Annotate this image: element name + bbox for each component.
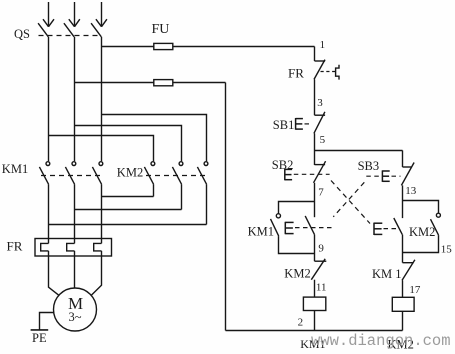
- motor M circle: [54, 288, 97, 331]
- wire phase1 vertical: [48, 37, 50, 161]
- wire 1-3: [314, 79, 316, 115]
- KM1 aux branch bottom wire: [279, 236, 315, 253]
- svg-text:2: 2: [298, 317, 304, 329]
- svg-text:13: 13: [405, 185, 417, 197]
- wire bottom rail: [226, 330, 403, 332]
- wire KM2 pole3 down: [206, 184, 208, 224]
- svg-text:7: 7: [318, 187, 324, 199]
- FR heater element 3: [94, 243, 102, 251]
- svg-text:1: 1: [320, 39, 326, 51]
- svg-text:KM1: KM1: [248, 225, 274, 239]
- wire 13-15 lower: [402, 235, 404, 263]
- SB2 link dash: [294, 173, 330, 175]
- svg-text:3~: 3~: [69, 310, 82, 324]
- wire tap phase1 to KM2 pole1: [49, 136, 154, 162]
- svg-text:www.diangon.com: www.diangon.com: [311, 332, 451, 350]
- coil KM2: [392, 297, 414, 311]
- wire node1 corner down: [314, 47, 316, 62]
- svg-text:3: 3: [317, 97, 323, 109]
- wire to fuse FU2: [75, 82, 226, 84]
- svg-text:SB2: SB2: [272, 158, 294, 172]
- thermal contact FR (NC): [314, 60, 325, 80]
- svg-text:KM2: KM2: [117, 166, 143, 180]
- wire phase2 vertical: [74, 37, 76, 161]
- fuse FU2: [154, 80, 173, 86]
- right E link dashes: [384, 228, 398, 230]
- svg-text:SB3: SB3: [358, 159, 380, 173]
- right E actuator: [374, 223, 382, 235]
- FR heater element 2: [67, 243, 75, 251]
- contact KM1 NC interlock: [402, 260, 415, 281]
- linkage SB2 to right NO contact (dashed diagonal): [331, 181, 370, 224]
- switch QS pole 2 blade: [64, 23, 74, 37]
- KM1 linkage dashed: [41, 175, 102, 177]
- svg-text:KM1: KM1: [2, 162, 28, 176]
- QS linkage dashed: [39, 35, 102, 37]
- wire coil KM2 to rail: [402, 311, 404, 330]
- contactor KM1 main pole2: [65, 162, 75, 185]
- wire node5 corner down (right branch): [402, 150, 404, 167]
- wire FR1 to motor: [49, 251, 59, 295]
- pushbutton SB1 (NC stop): [314, 112, 325, 134]
- svg-text:KM2: KM2: [409, 225, 435, 239]
- wire join out3: [102, 196, 154, 198]
- contactor KM1 aux contact: [271, 214, 281, 236]
- wire FR2 to motor: [74, 251, 76, 288]
- contactor KM1 main pole3: [92, 162, 102, 185]
- wire FR3 to motor: [91, 251, 101, 295]
- wire tap phase3 to KM2 pole3: [102, 115, 207, 162]
- coil KM1: [303, 297, 325, 310]
- supply line L3: [96, 2, 107, 27]
- SB3 actuator E: [382, 170, 389, 182]
- wire control feed left (from FU2): [225, 83, 227, 331]
- wire KM2 pole2 down: [181, 184, 183, 209]
- wire node5 branch right: [315, 150, 403, 152]
- wire phase3 vertical: [101, 37, 103, 161]
- contactor KM1 main pole1: [39, 162, 49, 185]
- svg-text:KM2: KM2: [284, 266, 310, 280]
- contactor KM2 main pole1: [144, 162, 154, 185]
- SB3-NO actuator E: [285, 222, 293, 234]
- KM1 aux branch top wire: [279, 202, 315, 214]
- svg-text:15: 15: [441, 244, 453, 256]
- wire KM1 pole2 down: [74, 184, 76, 243]
- svg-text:9: 9: [318, 243, 324, 255]
- contact KM2 NC interlock: [311, 259, 326, 280]
- svg-text:5: 5: [320, 134, 326, 146]
- wire 7-9 lower: [314, 235, 316, 262]
- pushbutton SB3 (NC shown): [401, 163, 414, 186]
- fuse FU1: [154, 43, 173, 49]
- wire tap phase2 to KM2 pole2: [75, 126, 182, 162]
- supply line L1: [43, 2, 54, 27]
- SB2 actuator E: [285, 169, 292, 181]
- switch QS pole 1 blade: [38, 23, 48, 37]
- thermal relay FR box: [35, 239, 112, 257]
- wire KM2 pole1 down: [153, 184, 155, 196]
- supply line L2: [69, 2, 80, 27]
- KM2 linkage dashed: [146, 175, 207, 177]
- contact SB3-NO between 7 and 9: [305, 216, 314, 235]
- KM2 aux branch top wire: [403, 201, 439, 214]
- wire to fuse FU1: [102, 46, 315, 48]
- wire PE: [40, 313, 54, 330]
- wire 9-11: [314, 280, 316, 297]
- contactor KM2 main pole3: [197, 162, 208, 185]
- wire 13 vertical: [402, 185, 404, 218]
- wire 5-7: [314, 183, 316, 217]
- left E link dashes: [295, 227, 333, 229]
- wire join out1: [49, 224, 207, 226]
- ground bar: [31, 329, 49, 331]
- linkage SB3 to left NO contact (dashed diagonal): [333, 182, 364, 217]
- svg-text:KM 1: KM 1: [372, 267, 402, 281]
- switch QS pole 3 blade: [91, 23, 101, 37]
- KM2 aux branch bottom wire: [403, 235, 439, 252]
- svg-text:17: 17: [409, 284, 421, 296]
- wire KM1 pole1 down: [48, 184, 50, 243]
- svg-text:QS: QS: [14, 27, 30, 41]
- svg-text:FR: FR: [7, 238, 23, 253]
- wire coil KM1 to rail: [314, 311, 316, 331]
- FR heater element 1: [41, 243, 49, 251]
- svg-text:11: 11: [316, 281, 327, 293]
- SB1 link dash: [305, 123, 312, 125]
- svg-text:FU: FU: [152, 22, 170, 37]
- contactor KM2 main pole2: [172, 162, 183, 185]
- SB3 link dash left: [366, 175, 380, 177]
- wire 15-17: [402, 280, 404, 297]
- SB1 actuator E: [296, 118, 303, 130]
- contactor KM2 aux contact: [431, 213, 441, 235]
- svg-text:FR: FR: [288, 65, 304, 80]
- FR trip actuator: [321, 65, 340, 80]
- wire join out2: [75, 209, 182, 211]
- wire KM1 pole3 down: [101, 184, 103, 243]
- contact SB2-NO between 13 and 15: [394, 218, 403, 235]
- wire 3-5: [314, 133, 316, 165]
- pushbutton SB2 (NC shown): [314, 161, 326, 183]
- svg-text:PE: PE: [32, 331, 47, 345]
- svg-text:SB1: SB1: [273, 118, 295, 132]
- SB3 link dash right: [392, 175, 401, 177]
